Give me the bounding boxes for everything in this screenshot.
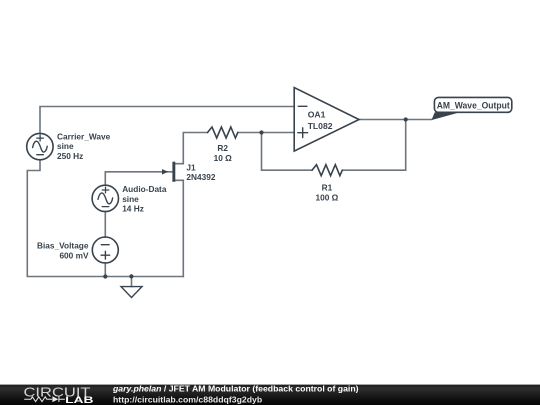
- svg-text:R2: R2: [217, 143, 228, 153]
- svg-text:sine: sine: [57, 141, 74, 151]
- svg-text:10 Ω: 10 Ω: [214, 153, 233, 163]
- svg-text:2N4392: 2N4392: [186, 172, 215, 182]
- svg-text:J1: J1: [186, 163, 196, 173]
- svg-text:Audio-Data: Audio-Data: [122, 184, 167, 194]
- svg-text:600 mV: 600 mV: [59, 250, 89, 260]
- svg-text:14 Hz: 14 Hz: [122, 204, 144, 214]
- svg-text:100 Ω: 100 Ω: [315, 193, 338, 203]
- svg-text:AM_Wave_Output: AM_Wave_Output: [437, 100, 510, 110]
- svg-text:LAB: LAB: [65, 395, 93, 405]
- svg-text:http://circuitlab.com/c88ddqf3: http://circuitlab.com/c88ddqf3g2dyb: [113, 395, 262, 405]
- svg-text:R1: R1: [322, 182, 333, 192]
- svg-text:OA1: OA1: [308, 110, 326, 120]
- svg-text:sine: sine: [122, 194, 139, 204]
- svg-text:250 Hz: 250 Hz: [57, 151, 83, 161]
- svg-text:gary.phelan / JFET AM Modulato: gary.phelan / JFET AM Modulator (feedbac…: [112, 384, 359, 394]
- svg-text:Carrier_Wave: Carrier_Wave: [57, 131, 111, 141]
- svg-text:Bias_Voltage: Bias_Voltage: [37, 241, 89, 251]
- svg-text:TL082: TL082: [308, 121, 333, 131]
